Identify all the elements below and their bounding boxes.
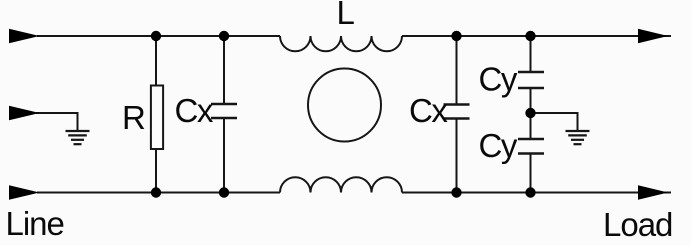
wire top-left segment (37, 35, 280, 37)
capacitor Cy2 lead bottom (530, 154, 532, 193)
junction dot Cy midpoint (525, 108, 535, 118)
capacitor Cy2 plates (518, 139, 544, 154)
inductor L bottom winding (280, 177, 402, 192)
port arrow mid-left (earth reference in) (9, 106, 40, 121)
junction dot Cy bottom (525, 187, 535, 197)
svg-text:Load: Load (603, 206, 672, 243)
ground symbol left (66, 131, 90, 144)
svg-text:Cx: Cx (409, 92, 448, 129)
capacitor Cx2 plates (444, 105, 470, 119)
capacitor Cx1 plates (211, 104, 237, 118)
svg-text:L: L (337, 0, 355, 31)
svg-text:Line: Line (6, 205, 64, 242)
resistor R lead bottom (155, 150, 157, 193)
wire bottom-left segment (37, 192, 280, 194)
wire top-right segment (402, 35, 671, 37)
resistor R lead top (155, 36, 157, 85)
resistor R body (151, 86, 163, 150)
junction dot Cx1 bottom (219, 187, 229, 197)
port arrow bottom-right (to Load) (638, 185, 668, 199)
capacitor Cy1 plates (518, 72, 544, 88)
capacitor Cx1 lead top (223, 36, 225, 104)
junction dot Cy top (525, 31, 535, 41)
port arrow bottom-left (Line in) (9, 185, 40, 200)
wire mid-left arrow to ground (36, 113, 78, 131)
capacitor Cx1 lead bottom (223, 118, 225, 193)
wire Cy midpoint to right ground (531, 113, 578, 131)
inductor L top winding (280, 36, 402, 51)
junction dot Cx1 top (219, 31, 229, 41)
junction dot R bottom (151, 187, 161, 197)
junction dot Cx2 bottom (451, 187, 461, 197)
wire bottom-right segment (402, 192, 671, 194)
svg-text:Cy: Cy (479, 127, 518, 164)
port arrow top-left (Line in) (9, 29, 40, 44)
capacitor Cx2 lead bottom (456, 119, 458, 193)
svg-text:Cx: Cx (175, 92, 214, 129)
junction dot Cx2 top (451, 31, 461, 41)
port arrow top-right (to Load) (638, 29, 668, 43)
svg-text:R: R (122, 99, 145, 136)
ground symbol right (566, 131, 590, 144)
svg-text:Cy: Cy (479, 61, 518, 98)
capacitor Cy1 lead top (530, 36, 532, 72)
junction dot R top (151, 31, 161, 41)
capacitor Cx2 lead top (456, 36, 458, 105)
wire Cy1 to midpoint node (530, 88, 532, 139)
inductor L core circle (308, 69, 381, 142)
